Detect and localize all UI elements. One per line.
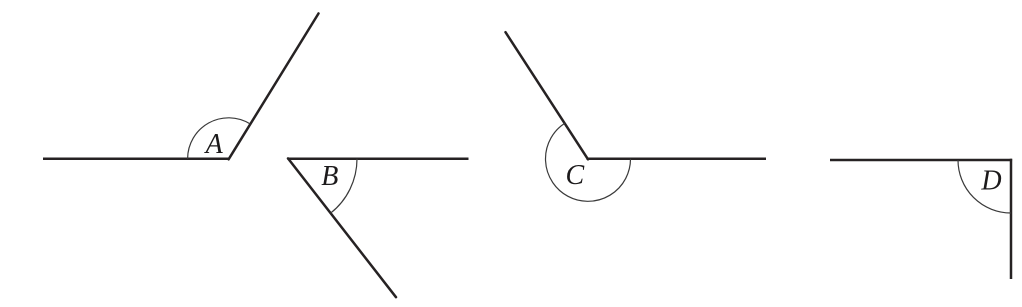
angle figure C: [506, 32, 767, 201]
wire oblique ray of B: [288, 158, 396, 297]
wire oblique ray of C: [506, 32, 589, 159]
arc marker of reflex angle C: [546, 123, 631, 201]
wire horizontal ray of B: [287, 158, 468, 161]
wire horizontal ray of D: [830, 159, 1012, 162]
wire horizontal ray of A: [43, 158, 230, 161]
svg-text:A: A: [204, 129, 224, 160]
arc marker of angle D: [958, 160, 1011, 213]
svg-text:D: D: [980, 166, 1001, 197]
wire oblique ray of A: [229, 14, 319, 160]
arc marker of angle B: [331, 159, 358, 213]
angle figure D: [830, 159, 1012, 279]
wire vertical ray of D: [1010, 159, 1013, 279]
arc marker of angle A: [188, 118, 251, 159]
wire horizontal ray of C: [587, 158, 767, 161]
angle figure A: [43, 14, 319, 161]
svg-text:B: B: [321, 161, 338, 192]
angle figure B: [287, 158, 468, 297]
svg-text:C: C: [566, 160, 585, 191]
